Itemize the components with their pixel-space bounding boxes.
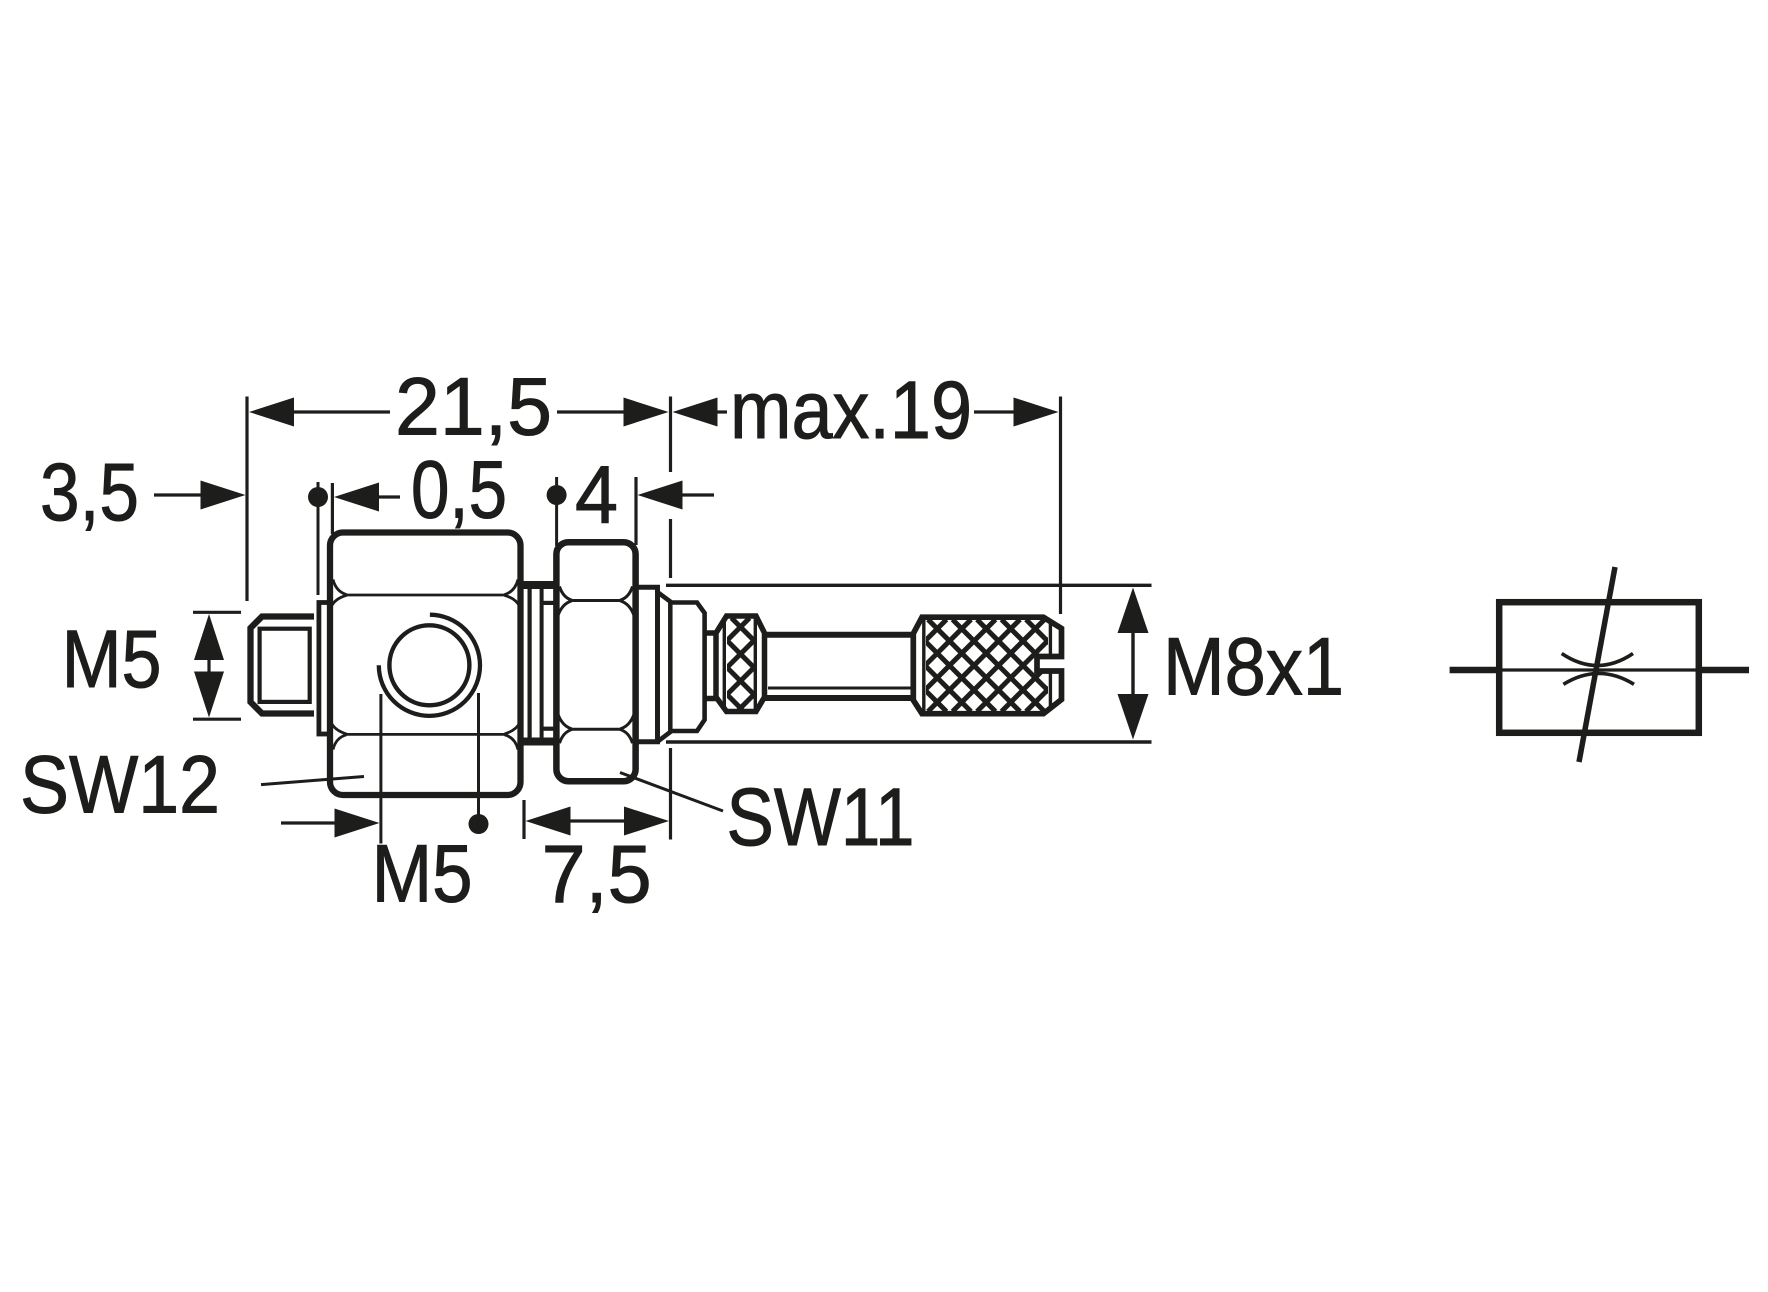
svg-text:M5: M5 [372, 829, 473, 920]
knurl pattern on knob [855, 620, 1143, 712]
svg-text:max.19: max.19 [730, 365, 972, 456]
threaded collar M8 [658, 593, 705, 742]
washer C right of nut [638, 587, 658, 742]
M8 thread envelope lines [666, 585, 1152, 742]
label SW12 with leader line [261, 777, 364, 785]
svg-text:21,5: 21,5 [395, 362, 552, 453]
neck between collar and knurled ring [705, 633, 716, 699]
symbol frame [1499, 602, 1699, 733]
dimension M5 (bottom, port thread) [281, 693, 489, 844]
tapped hole M5 (top port), thread arc [379, 615, 480, 716]
washer and sleeve between body and nut [519, 584, 556, 744]
threaded stub M5 (left port) [251, 617, 315, 714]
symbol flow line left stub [1450, 667, 1499, 674]
dimension 21,5 [249, 398, 669, 427]
knurled adjusting knob with screwdriver slot [913, 617, 1061, 714]
svg-text:3,5: 3,5 [40, 447, 139, 538]
symbol flow line inside [1499, 668, 1699, 671]
svg-text:7,5: 7,5 [542, 829, 652, 920]
dimension 0,5 [308, 482, 400, 595]
dimension max.19 [673, 398, 1059, 427]
svg-text:M8x1: M8x1 [1163, 622, 1344, 713]
svg-text:0,5: 0,5 [411, 445, 507, 536]
svg-text:SW12: SW12 [20, 740, 220, 831]
valve body (SW12 hex, side view) [330, 533, 521, 796]
wire: shared extension line between 21,5 and max.19 [669, 397, 672, 840]
flange washer at body left [319, 603, 330, 735]
symbol flow line right stub [1699, 667, 1749, 674]
knurled lock ring [631, 616, 858, 712]
dimension 4 [547, 477, 714, 546]
wire: extension line right of max.19 dimension [1059, 397, 1062, 615]
svg-text:4: 4 [575, 450, 618, 541]
hex nut SW11 [556, 542, 635, 781]
symbol adjustability slash [1579, 567, 1615, 762]
svg-text:M5: M5 [62, 614, 162, 705]
dimension M8x1 vertical [1118, 588, 1149, 740]
label SW11 with leader line [620, 773, 723, 812]
dimension 3,5 [154, 481, 246, 510]
pneumatic throttle valve symbol [1450, 567, 1749, 762]
dimension M5 vertical (left thread size) [193, 612, 241, 719]
symbol throttle arcs [1562, 654, 1633, 666]
dimension 7,5 [524, 800, 669, 839]
adjusting screw stem [765, 635, 912, 698]
wire: extension line left of 21,5 dimension [245, 397, 248, 602]
svg-text:SW11: SW11 [727, 772, 915, 863]
